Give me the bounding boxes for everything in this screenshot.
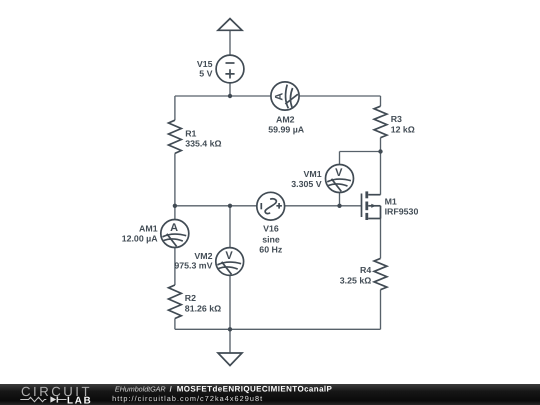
resistor R2 <box>169 285 182 319</box>
voltmeter VM2 <box>216 248 244 276</box>
junction ground-bottom rail <box>228 327 232 331</box>
wire VM1 branch horizontal <box>340 151 381 153</box>
wire right rail source <box>380 219 382 259</box>
wire left rail upper <box>174 96 176 120</box>
label R3 value <box>391 114 415 134</box>
junction VM1-gate row <box>337 204 341 208</box>
resistor R1 <box>169 120 182 153</box>
resistor R3 <box>374 106 387 138</box>
wire right rail upper <box>380 96 382 106</box>
svg-text:R2: R2 <box>185 293 196 303</box>
svg-text:IRF9530: IRF9530 <box>385 207 419 217</box>
svg-text:http://circuitlab.com/c72ka4x6: http://circuitlab.com/c72ka4x629u8t <box>112 394 262 403</box>
svg-text:R3: R3 <box>391 114 402 124</box>
label M1 value <box>385 196 419 216</box>
svg-text:V: V <box>225 250 233 262</box>
footer credit line <box>112 384 332 403</box>
wire VM2 branch <box>229 206 231 329</box>
svg-text:3.305 V: 3.305 V <box>291 179 321 189</box>
CircuitLab logo <box>20 384 90 405</box>
wire right rail lower <box>380 290 382 330</box>
svg-text:VM1: VM1 <box>304 169 322 179</box>
voltmeter VM1 <box>326 165 354 193</box>
voltage source V16 sine <box>257 192 285 220</box>
wire bottom rail <box>175 328 381 330</box>
transistor M1 PMOS <box>362 191 381 220</box>
junction V15-top rail <box>228 94 232 98</box>
node VCC triangle top <box>218 19 242 31</box>
svg-text:A: A <box>170 222 178 234</box>
svg-text:335.4 kΩ: 335.4 kΩ <box>185 138 221 148</box>
wire VM1 branch vertical <box>339 152 341 206</box>
svg-text:V16: V16 <box>263 224 279 234</box>
label R4 value <box>340 265 372 285</box>
svg-text:59.99 µA: 59.99 µA <box>268 125 305 135</box>
svg-text:M1: M1 <box>385 196 397 206</box>
svg-text:LAB: LAB <box>67 395 91 405</box>
label AM2 value <box>268 114 305 134</box>
svg-text:3.25 kΩ: 3.25 kΩ <box>340 275 372 285</box>
junction VM2-gate row <box>228 204 232 208</box>
wire mid gate row <box>175 205 362 207</box>
wire right rail drain <box>380 138 382 195</box>
svg-text:12.00 µA: 12.00 µA <box>122 234 159 244</box>
svg-text:EHumboldtGAR: EHumboldtGAR <box>115 384 166 393</box>
svg-text:A: A <box>274 93 286 101</box>
svg-text:60 Hz: 60 Hz <box>259 245 283 255</box>
resistor R4 <box>374 258 387 289</box>
svg-text:5 V: 5 V <box>199 68 212 78</box>
label VM2 value <box>174 251 212 271</box>
ground <box>218 353 242 366</box>
svg-text:VM2: VM2 <box>194 251 212 261</box>
wire top rail <box>175 95 381 97</box>
wire left rail lower <box>174 319 176 330</box>
svg-text:AM2: AM2 <box>276 114 295 124</box>
label R1 value <box>185 129 221 149</box>
label R2 value <box>185 293 221 313</box>
svg-text:81.26 kΩ: 81.26 kΩ <box>185 303 221 313</box>
svg-text:R1: R1 <box>185 129 196 139</box>
label V16 value <box>259 224 283 255</box>
wire left rail mid <box>174 153 176 285</box>
label V15 value <box>197 59 213 78</box>
label AM1 value <box>122 224 159 244</box>
wire V15 branch vertical <box>229 30 231 96</box>
svg-text:12 kΩ: 12 kΩ <box>391 124 415 134</box>
junction left rail-gate row <box>173 204 177 208</box>
wire ground stem <box>229 329 231 353</box>
footer bar <box>0 384 540 405</box>
svg-text:AM1: AM1 <box>139 224 158 234</box>
ammeter AM1 <box>161 220 189 248</box>
ammeter AM2 <box>271 82 299 110</box>
svg-text:V: V <box>335 167 343 179</box>
svg-text:MOSFETdeENRIQUECIMIENTOcanalP: MOSFETdeENRIQUECIMIENTOcanalP <box>177 384 333 393</box>
junction VM1-right rail <box>378 149 382 153</box>
svg-text:975.3 mV: 975.3 mV <box>174 261 212 271</box>
label VM1 value <box>291 169 321 189</box>
svg-text:R4: R4 <box>360 265 371 275</box>
svg-text:sine: sine <box>262 235 280 245</box>
voltage source V15 <box>216 55 244 83</box>
